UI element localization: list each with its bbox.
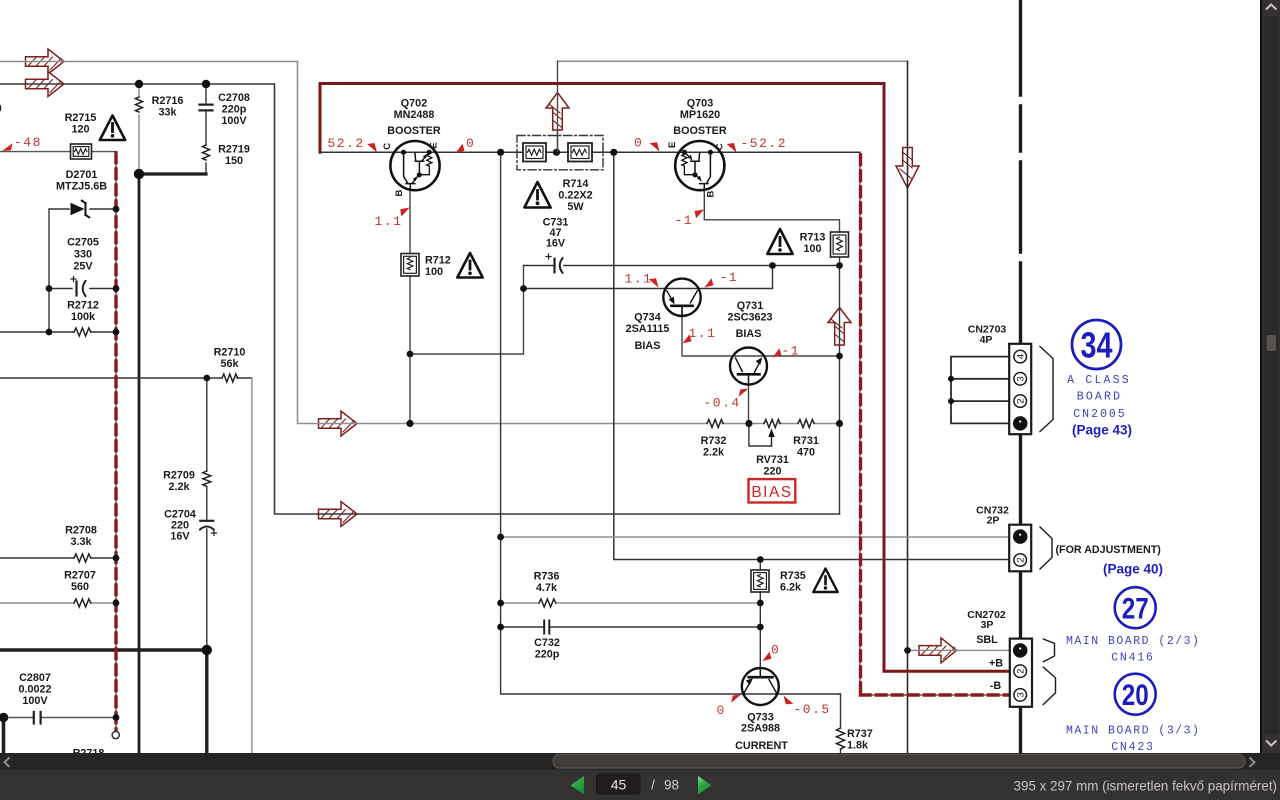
svg-text:4.7k: 4.7k	[536, 582, 558, 594]
hatched arrow left y61.5	[26, 49, 65, 74]
svg-text:0.22X2: 0.22X2	[558, 190, 592, 202]
svg-text:R2712: R2712	[67, 300, 99, 312]
node Q731 collector	[745, 420, 752, 427]
wire overdraw through arrows	[25, 62, 956, 651]
wire C731 right y265.5	[564, 265, 840, 267]
node Q702 emitter rail	[497, 149, 504, 156]
svg-text:D2701: D2701	[66, 169, 98, 181]
hatched arrow SBL y650.4	[919, 638, 957, 663]
red flag 0 Q733L	[731, 695, 741, 703]
wire -48 line R2715	[0, 151, 116, 153]
red flag 52.2	[367, 143, 377, 153]
red flag -1 Q703B	[695, 210, 704, 219]
hatched arrow mid y514	[319, 502, 358, 527]
red flag -48	[2, 143, 13, 151]
resistor R2708	[74, 554, 91, 562]
svg-text:MAIN BOARD (3/3): MAIN BOARD (3/3)	[1066, 725, 1200, 738]
resistor R735 boxed	[751, 570, 769, 592]
wire thick ground y650	[0, 650, 207, 753]
svg-text:100: 100	[803, 243, 821, 255]
svg-text:R2710: R2710	[214, 347, 246, 359]
BIAS red box	[749, 479, 796, 502]
svg-text:2: 2	[1016, 557, 1027, 562]
wire bias chain right part	[722, 423, 840, 425]
svg-text:R713: R713	[800, 232, 826, 244]
node C732 right	[757, 624, 764, 631]
svg-text:-1: -1	[675, 213, 694, 228]
node R736 left	[497, 600, 504, 607]
svg-text:150: 150	[225, 155, 243, 167]
wire C2708 R2719 hanger	[205, 84, 207, 174]
node R2712 right	[113, 329, 120, 336]
capacitor C2704	[200, 521, 217, 536]
svg-text:C2807: C2807	[19, 672, 51, 684]
svg-text:2.2k: 2.2k	[168, 481, 190, 493]
svg-text:16V: 16V	[170, 531, 190, 543]
svg-text:0: 0	[466, 136, 474, 151]
red flag -52.2	[727, 143, 737, 153]
wire C2807 y716	[4, 717, 117, 719]
blue page circle 27	[1115, 587, 1156, 628]
svg-text:1.8k: 1.8k	[847, 740, 869, 752]
svg-text:BOARD: BOARD	[1077, 391, 1123, 404]
node C2708 top	[202, 80, 210, 88]
svg-text:CN2005: CN2005	[1073, 408, 1126, 421]
red flag -1 Q734	[705, 278, 714, 287]
wire thick link y174	[139, 172, 206, 175]
wire maroon +B highlight box	[320, 84, 1010, 672]
svg-text:R736: R736	[534, 571, 560, 583]
svg-text:R714: R714	[563, 178, 589, 190]
node R713 bottom	[836, 262, 843, 269]
wire R736 y603	[501, 602, 761, 604]
node CN2703 pin2 bus	[948, 398, 954, 404]
svg-text:1.1: 1.1	[625, 272, 653, 287]
wire thick bottom-left stub	[2, 718, 6, 754]
svg-text:E: E	[667, 142, 678, 148]
svg-text:B: B	[706, 190, 717, 197]
node R736 right	[757, 600, 764, 607]
wire CN2703 pin links	[951, 357, 1010, 424]
svg-text:MP1620: MP1620	[680, 109, 720, 121]
node R2710 tap	[203, 375, 210, 382]
hatched arrow mid y423.5	[319, 411, 358, 436]
wire Q734 emitter y288.5	[524, 266, 773, 289]
resistor R712 boxed	[401, 254, 419, 277]
warning triangle R735	[813, 569, 837, 593]
wire dashed maroon x116 overlay	[114, 153, 117, 731]
red flag 1.1 Q731B	[683, 334, 692, 343]
node R2716 bottom thick rail	[134, 169, 144, 179]
resistor R713 boxed	[831, 232, 849, 257]
wire R2710 line y378	[0, 377, 252, 379]
wire zener branch	[49, 209, 116, 332]
wire Q733 right to R737	[840, 694, 842, 753]
hatched arrow down x907.5	[896, 148, 919, 189]
red flag 1.1 Q702B	[400, 208, 409, 217]
resistor R2707	[74, 599, 91, 607]
svg-text:R2709: R2709	[163, 470, 195, 482]
node C2705 left	[46, 285, 53, 292]
svg-text:-0.5: -0.5	[794, 702, 831, 717]
hatched arrow up x839.5	[828, 308, 851, 346]
svg-text:C: C	[382, 143, 393, 150]
node R2708 right	[113, 555, 120, 562]
svg-text:BIAS: BIAS	[635, 340, 661, 352]
node open terminal R2718	[112, 731, 119, 738]
svg-text:MAIN BOARD (2/3): MAIN BOARD (2/3)	[1066, 635, 1200, 648]
svg-text:R2715: R2715	[65, 112, 97, 124]
svg-text:56k: 56k	[220, 358, 239, 370]
diode D2701 zener	[71, 201, 90, 218]
hatched arrow up x557	[546, 93, 569, 131]
transistor Q703	[675, 141, 724, 190]
svg-text:CURRENT: CURRENT	[735, 740, 788, 752]
svg-text:16V: 16V	[546, 238, 566, 250]
svg-text:33k: 33k	[158, 107, 177, 119]
wire CN bus x1020 dashed thick	[1019, 0, 1022, 753]
svg-text:R2719: R2719	[218, 144, 250, 156]
svg-text:CN416: CN416	[1111, 652, 1155, 665]
svg-text:Q702: Q702	[401, 98, 427, 110]
node R712 link	[407, 351, 414, 358]
svg-text:Q703: Q703	[687, 98, 713, 110]
svg-text:20: 20	[1122, 679, 1149, 712]
wire R2716 hanger gray	[138, 84, 140, 174]
svg-text:C732: C732	[534, 637, 560, 649]
svg-text:5W: 5W	[567, 201, 584, 213]
red flag -0.4	[739, 389, 749, 397]
svg-text:330: 330	[74, 249, 92, 261]
node C2705 right	[113, 285, 120, 292]
red flag 0 Q703E	[650, 142, 660, 151]
node C2807 right	[113, 714, 120, 721]
resistor R737	[837, 728, 845, 749]
svg-text:0: 0	[634, 136, 642, 151]
svg-text:34: 34	[1081, 325, 1113, 366]
red flag 0 Q702E	[456, 144, 465, 153]
node R2712 left	[46, 329, 53, 336]
warning triangle R714	[524, 182, 550, 208]
svg-text:220p: 220p	[222, 104, 247, 116]
svg-text:C: C	[714, 143, 725, 150]
node D2701 cathode	[113, 206, 120, 213]
capacitor C2705	[71, 277, 86, 297]
svg-text:/: /	[651, 778, 655, 793]
svg-text:27: 27	[1122, 593, 1149, 626]
capacitor C732	[544, 621, 549, 634]
wire -52.2 black underlay	[860, 152, 1010, 695]
svg-text:R2707: R2707	[64, 570, 96, 582]
node C2807 left	[0, 713, 8, 723]
svg-text:3: 3	[1016, 376, 1027, 381]
wire C2705 branch	[49, 288, 116, 290]
capacitor C2807	[34, 712, 41, 724]
warning triangle R713	[767, 229, 792, 254]
svg-text:2SC3623: 2SC3623	[727, 312, 772, 324]
svg-text:-52.2: -52.2	[741, 136, 788, 151]
svg-text:E: E	[429, 142, 440, 148]
capacitor C731	[546, 254, 563, 273]
svg-text:2: 2	[1016, 669, 1027, 674]
transistor Q731	[730, 348, 767, 385]
connector CN2702	[1010, 639, 1056, 707]
wire R735 stem and Q733 top	[759, 560, 761, 669]
wire y537 to CN732 pin1	[501, 536, 1010, 538]
wire Q702 base chain x410	[409, 189, 411, 424]
wire x839.5 bias vertical	[839, 266, 841, 515]
node C732 left	[497, 624, 504, 631]
svg-text:120: 120	[71, 124, 89, 136]
svg-text:2.2k: 2.2k	[703, 447, 725, 459]
resistor R2710	[222, 374, 238, 382]
wire RV731 wiper	[749, 424, 772, 447]
blue page circle 34	[1072, 320, 1121, 369]
svg-text:BIAS: BIAS	[751, 484, 792, 501]
node R731 right	[836, 420, 843, 427]
red flag 0 Q733top	[763, 652, 772, 661]
svg-text:Q734: Q734	[634, 312, 660, 324]
svg-text:-48: -48	[14, 135, 42, 150]
svg-text:(FOR ADJUSTMENT): (FOR ADJUSTMENT)	[1056, 544, 1162, 556]
resistor R731	[798, 420, 814, 428]
R714 dash-dot enclosure	[517, 136, 603, 170]
svg-text:1.1: 1.1	[375, 214, 403, 229]
svg-text:SBL: SBL	[976, 634, 998, 646]
node R714 center	[553, 149, 560, 156]
svg-text:BOOSTER: BOOSTER	[673, 125, 727, 137]
wire booster arrow stem x557	[557, 61, 559, 152]
wire thick vertical x139	[138, 174, 141, 753]
node R712 bottom	[406, 420, 413, 427]
svg-text:C2708: C2708	[218, 92, 250, 104]
svg-text:220p: 220p	[535, 649, 560, 661]
node CN2703 pin3 bus	[948, 376, 954, 382]
svg-text:0: 0	[771, 643, 779, 658]
blue page circle 20	[1115, 674, 1156, 715]
svg-text:100V: 100V	[221, 115, 247, 127]
svg-text:RV731: RV731	[756, 454, 789, 466]
svg-text:R735: R735	[780, 570, 806, 582]
node SBL tap	[904, 647, 911, 654]
svg-text:MTZJ5.6B: MTZJ5.6B	[56, 181, 107, 193]
capacitor C2708	[200, 105, 213, 111]
resistor R732	[707, 420, 723, 428]
wire dashed maroon x116 underlay	[115, 152, 117, 731]
svg-text:R2716: R2716	[152, 95, 184, 107]
wire top gray bus left	[0, 62, 707, 424]
svg-text:R712: R712	[425, 255, 451, 267]
svg-text:52.2: 52.2	[328, 136, 365, 151]
svg-text:C2705: C2705	[67, 237, 99, 249]
resistor R2716	[136, 97, 143, 112]
wire R2712 branch	[0, 331, 116, 333]
connector CN2703	[1009, 344, 1053, 434]
node R735 top	[757, 556, 764, 563]
svg-text:100V: 100V	[22, 695, 48, 707]
wire link y354	[410, 266, 524, 355]
node CN732 pin1 branch	[497, 534, 504, 541]
svg-text:BIAS: BIAS	[736, 328, 762, 340]
svg-text:-1: -1	[782, 344, 801, 359]
wire SBL stub gray	[908, 649, 1010, 651]
svg-text:-1: -1	[720, 270, 739, 285]
svg-text:MN2488: MN2488	[394, 109, 435, 121]
svg-text:-0.4: -0.4	[704, 396, 741, 411]
svg-text:BOOSTER: BOOSTER	[387, 125, 441, 137]
wire x500 vertical long	[501, 152, 841, 694]
node Q734 collector	[769, 262, 776, 269]
svg-text:100: 100	[425, 266, 443, 278]
wire gray vertical x252	[251, 378, 253, 753]
svg-text:+B: +B	[989, 658, 1003, 670]
svg-text:395 x 297 mm (ismeretlen fekvő: 395 x 297 mm (ismeretlen fekvő papírmére…	[1014, 779, 1277, 794]
svg-text:2: 2	[1016, 398, 1027, 403]
svg-text:470: 470	[797, 447, 815, 459]
transistor Q733	[742, 668, 779, 705]
hatched arrow left y84	[26, 72, 65, 97]
svg-text:3P: 3P	[981, 619, 994, 631]
resistor R714 boxed pair	[523, 143, 592, 162]
wire second bus black	[0, 84, 840, 514]
connector CN732	[1009, 525, 1052, 572]
resistor R2712	[74, 328, 91, 336]
red flag -1 Q731E	[773, 348, 782, 357]
node Q703 emitter rail	[610, 149, 617, 156]
resistor R736	[539, 599, 556, 607]
wire R2709 C2704 vertical	[206, 378, 208, 650]
svg-text:560: 560	[71, 581, 89, 593]
svg-text:(Page 40): (Page 40)	[1103, 562, 1163, 577]
wire R2708 y558	[0, 557, 116, 559]
svg-text:2SA988: 2SA988	[741, 723, 780, 735]
warning triangle R2715	[100, 116, 125, 141]
wire R2707 y603	[0, 602, 116, 604]
svg-text:0.0022: 0.0022	[18, 684, 51, 696]
transistor Q734	[663, 279, 700, 316]
resistor R2719	[203, 145, 210, 160]
wire x613.8 vertical to CN732 pin2	[614, 152, 1010, 559]
svg-text:25V: 25V	[73, 261, 93, 273]
node ground rail corner	[202, 645, 212, 655]
svg-text:CN423: CN423	[1111, 741, 1155, 754]
svg-text:B: B	[394, 189, 405, 196]
svg-text:98: 98	[664, 778, 679, 793]
node R2707 right	[113, 600, 120, 607]
node Q731 emitter	[836, 353, 843, 360]
warning triangle R712	[457, 253, 482, 278]
node R2716 top	[135, 80, 143, 88]
wire C731 left link	[524, 265, 554, 267]
wire vertical x907 down to bottom	[907, 61, 909, 753]
wire booster main y152	[320, 151, 860, 153]
red flag -0.5 Q733R	[784, 696, 794, 705]
svg-text:45: 45	[611, 777, 627, 793]
wire Q731 collector stem	[748, 385, 750, 424]
svg-text:A CLASS: A CLASS	[1067, 374, 1131, 387]
svg-text:220: 220	[763, 466, 781, 478]
svg-text:R2708: R2708	[65, 525, 97, 537]
svg-text:R737: R737	[847, 728, 873, 740]
svg-text:6.2k: 6.2k	[780, 582, 802, 594]
resistor R2715 boxed	[71, 144, 92, 159]
node C731 left	[520, 285, 527, 292]
svg-text:4P: 4P	[980, 334, 993, 346]
svg-text:0: 0	[717, 703, 725, 718]
resistor R2709	[203, 471, 211, 486]
svg-text:3: 3	[1016, 692, 1027, 697]
svg-text:4: 4	[1016, 354, 1027, 359]
potentiometer RV731	[764, 420, 780, 447]
svg-text:3.3k: 3.3k	[70, 536, 92, 548]
svg-text:1.1: 1.1	[689, 326, 717, 341]
svg-text:Q731: Q731	[737, 300, 763, 312]
svg-text:-B: -B	[990, 680, 1002, 692]
svg-text:(Page 43): (Page 43)	[1072, 423, 1132, 438]
transistor Q702	[390, 141, 439, 190]
svg-text:2SA1115: 2SA1115	[626, 323, 670, 335]
wire top-right run to CN bus	[558, 60, 908, 62]
wire C732 y627	[501, 626, 761, 628]
svg-text:2P: 2P	[987, 515, 1000, 527]
svg-text:R732: R732	[701, 435, 727, 447]
svg-text:100k: 100k	[71, 311, 96, 323]
wire Q734 base to Q731	[682, 307, 840, 357]
svg-text:R731: R731	[793, 435, 819, 447]
red flag 1.1 y288	[649, 278, 659, 287]
wire Q703 base to R713	[704, 190, 839, 266]
wire maroon dashed -B overlay	[861, 155, 1010, 695]
